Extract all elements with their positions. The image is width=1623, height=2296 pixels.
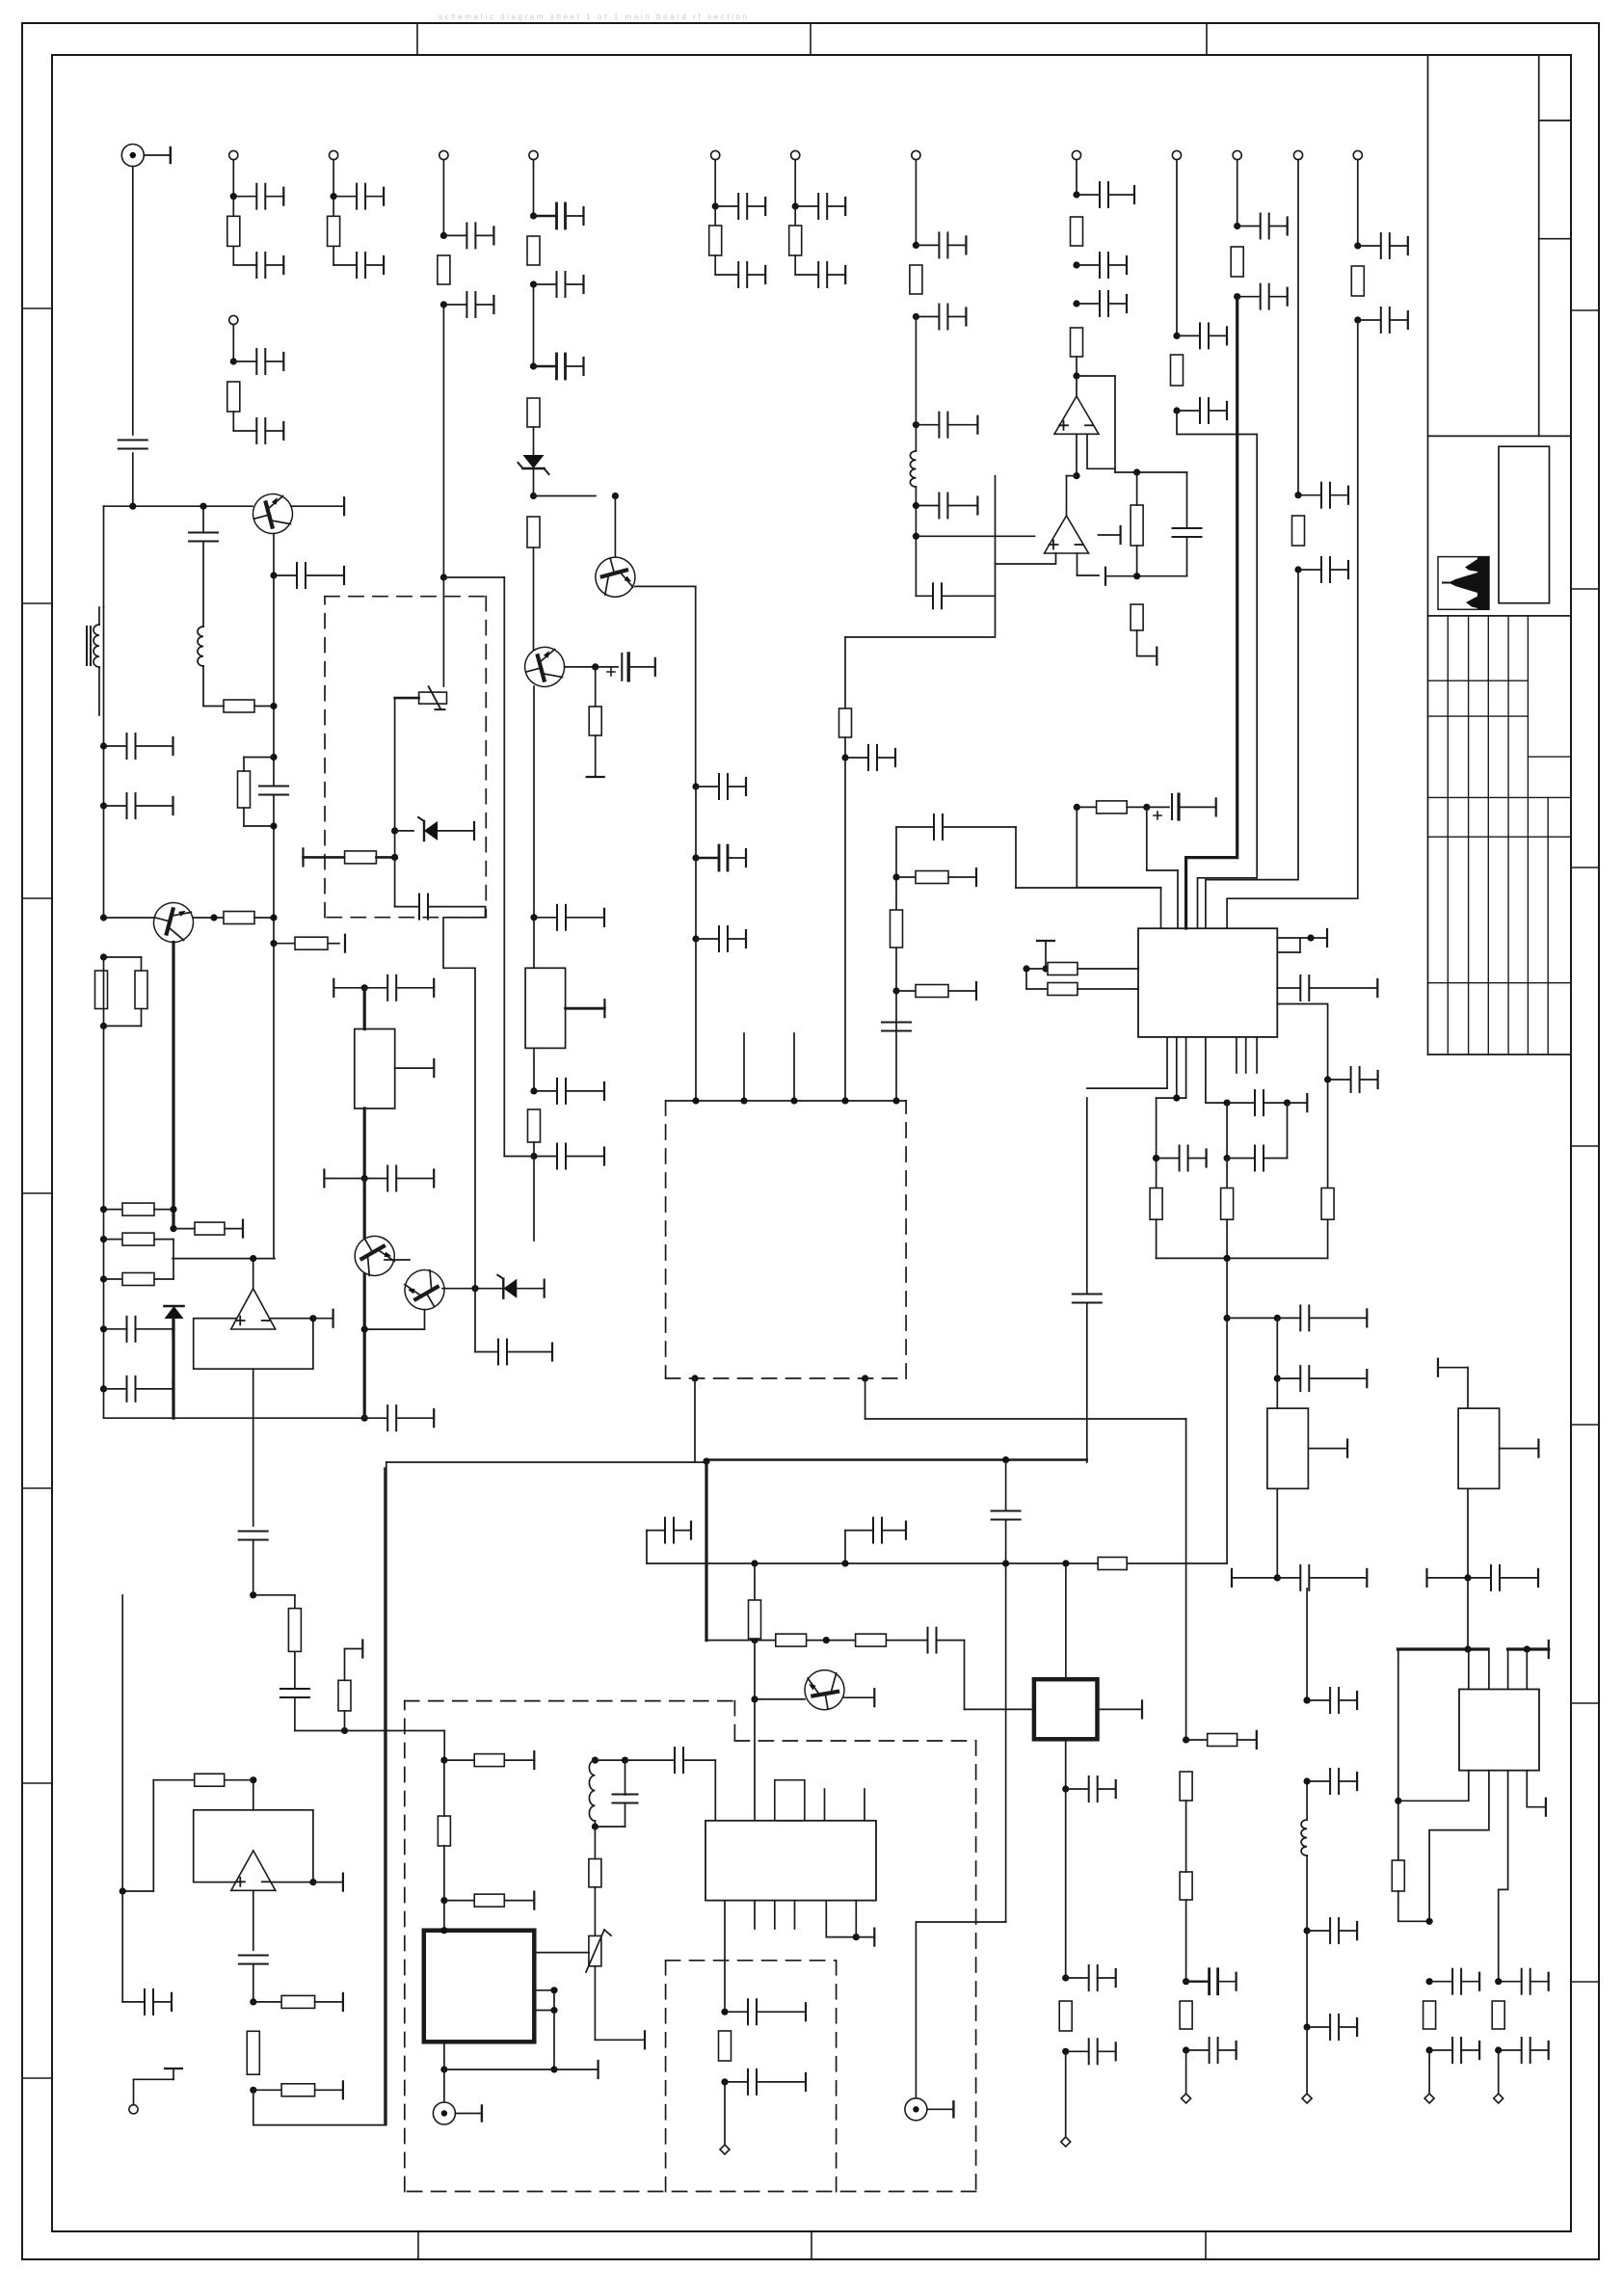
resistor R49 [247, 2031, 259, 2074]
Q7 stub [844, 1696, 874, 1698]
capacitor C54 row [1231, 1569, 1233, 1587]
zener D3 [391, 827, 398, 834]
Q6 output [442, 1288, 475, 1290]
IC5 top bold rail [1397, 1647, 1488, 1650]
resistor R46 [338, 1680, 351, 1711]
capacitor C37 series [259, 786, 288, 788]
capacitor C34 [100, 742, 107, 749]
node row y1025 [333, 979, 334, 997]
resistor R30v [891, 910, 903, 948]
resistor R31 [892, 987, 899, 994]
resistor R36 [1423, 2001, 1436, 2029]
IC U3 box [1138, 928, 1277, 1037]
resistor R42 [754, 1563, 756, 1600]
resistor R51 row [444, 1759, 474, 1761]
connector J2 coax [905, 2098, 927, 2121]
capacitor C78 [1066, 1788, 1089, 1790]
capacitor C69 series [992, 1510, 1021, 1512]
capacitor C76 row [323, 1170, 325, 1188]
capacitor C67 row [646, 1531, 648, 1563]
resistor bank top caps [1156, 1098, 1157, 1188]
capacitor C77 [474, 1289, 476, 1352]
capacitor C79 [1062, 1974, 1069, 1981]
long wire y1472 [1185, 1419, 1187, 1421]
IC4 bottom chain [1065, 1739, 1067, 1789]
IC3 top stubs [824, 1789, 826, 1821]
pin P21 [1065, 2051, 1067, 2137]
Q1 collector stub [291, 505, 344, 507]
wire to R14 [844, 637, 846, 708]
node F [1224, 1315, 1231, 1322]
capacitor C35 [100, 802, 107, 809]
capacitor C21 [1073, 191, 1079, 198]
resistor R11 [910, 265, 922, 294]
transistor Q2 [534, 495, 596, 497]
capacitor C36 [270, 572, 277, 578]
audio rail y1795 [295, 1730, 444, 1732]
wire to node A [132, 453, 134, 506]
IC3 crystal sub-box [775, 1780, 805, 1821]
bold bus to U3 [1186, 297, 1237, 928]
title block inner vertical [1538, 55, 1540, 436]
node A rail [104, 505, 253, 507]
resistor R35 [1392, 1860, 1404, 1891]
capacitor C3 [232, 246, 234, 265]
bottom rail y1701 [706, 1640, 927, 1642]
capacitor C10 [792, 202, 799, 209]
revision table rows [1428, 680, 1529, 681]
capacitor C62 [1304, 1696, 1311, 1703]
pin P8 [529, 150, 538, 159]
U2a inv input [1077, 553, 1078, 575]
node E row [173, 1258, 275, 1260]
capacitor C85 series [625, 1759, 676, 1761]
main vertical bus x284 [273, 575, 275, 786]
ground rail bottom left [104, 1417, 365, 1419]
resistor R25 row [100, 1236, 107, 1242]
U4a input [253, 1780, 254, 1810]
filter FL1 box [525, 968, 566, 1048]
capacitor C25 [1173, 333, 1180, 339]
wire to coax J2 [916, 1921, 1005, 1923]
Q5-Q6 link [385, 1259, 410, 1261]
TC2 bottom [1467, 1488, 1469, 1578]
resistor R10 [527, 517, 540, 547]
capacitor C18 [913, 313, 919, 320]
trimmer RV2 vertical [594, 1887, 596, 1936]
pin P7 [439, 150, 448, 159]
IC3 pin to stub [825, 1901, 827, 1937]
transistor Q5 [348, 1229, 402, 1283]
capacitor C41 [394, 831, 396, 907]
capacitor C19 [915, 317, 917, 425]
title block drawing number box [1499, 446, 1550, 603]
U2a output stub [1099, 534, 1121, 536]
capacitor C71 [721, 2078, 728, 2085]
resistor R48 row [253, 2001, 281, 2003]
wire 1230 column down [1185, 1421, 1187, 1740]
capacitor C39 [100, 1385, 107, 1392]
R46 top stub [344, 1649, 346, 1681]
capacitor C66 series [1073, 1294, 1102, 1295]
wire U2a plus input [996, 553, 1056, 564]
node B [533, 468, 535, 496]
resistor R32 [1150, 1188, 1162, 1220]
left edge zone ticks [22, 307, 52, 309]
resistor R26 row [100, 1275, 107, 1282]
pin P5 [711, 150, 720, 159]
wire node A to L3 [202, 506, 204, 532]
capacitor C5 [333, 246, 334, 265]
capacitor C82 [530, 914, 537, 921]
pin P6 [791, 150, 800, 159]
x1054 riser [1015, 827, 1017, 888]
Q2 output wire [635, 585, 696, 587]
resistor R15 [1171, 355, 1184, 386]
long bus y1517 [386, 1461, 706, 1463]
capacitor C47 series [882, 1022, 911, 1024]
capacitor C17 [913, 242, 919, 249]
pin P13 [1293, 150, 1302, 159]
resistor R4 [227, 382, 240, 412]
resistor R53 row [444, 1900, 474, 1902]
resistor R6 [794, 206, 796, 226]
wire R14 down [844, 758, 846, 1101]
wire feed x461 [443, 1731, 445, 1761]
resistor R2 [232, 197, 234, 217]
capacitor C63 [1304, 1777, 1311, 1784]
staircase to U3 pin1 [1016, 887, 1161, 889]
Q4 right wire [194, 917, 225, 919]
capacitor C14 bold [530, 212, 537, 219]
wire x783 down [754, 1641, 756, 1821]
module B1 box [363, 988, 366, 1029]
wire TC2 to IC5 [1467, 1578, 1469, 1649]
capacitor C6 [230, 358, 237, 364]
title block right column cells [1539, 120, 1571, 121]
pin P10 [1072, 150, 1080, 159]
M1 inner wire [394, 698, 396, 831]
bus y1622 [647, 1562, 1227, 1564]
resistor R7 [438, 255, 450, 284]
resistor R8 [527, 236, 540, 265]
right edge zone ticks [1571, 309, 1599, 311]
node H [533, 1142, 535, 1157]
capacitor C32 [1354, 316, 1361, 323]
wire cap to IC3 [714, 1760, 716, 1821]
wire IC6 to RV2 [534, 1952, 589, 1954]
wire to Q3 [533, 547, 535, 652]
capacitor C33 series [189, 532, 218, 534]
resistor R33 [1221, 1188, 1234, 1220]
op-amp U2b feedback network [1115, 471, 1187, 473]
capacitor C75 row [122, 2001, 145, 2003]
op-amp U2a [1066, 476, 1068, 516]
capacitor C68 row [844, 1531, 846, 1563]
op-amp U3a block [194, 1319, 313, 1370]
capacitor C53 [1274, 1375, 1281, 1382]
capacitor C45 [692, 935, 699, 942]
M2 pin stubs [743, 1033, 745, 1101]
bold riser x733 [705, 1462, 707, 1641]
resistor R28 [595, 667, 597, 707]
pin P9 [912, 150, 920, 159]
capacitor C55 row [1425, 1569, 1427, 1587]
resistor R29 [892, 873, 899, 880]
resistor R50 row [250, 2087, 256, 2094]
capacitor C7 [232, 412, 234, 431]
capacitor C30 [1294, 566, 1301, 573]
B1 stub [395, 1067, 435, 1069]
pin P11 [1172, 150, 1181, 159]
capacitor C20 [915, 487, 917, 506]
transistor Q6 [397, 1263, 451, 1317]
pin P19 [724, 2082, 726, 2145]
svg-text:schematic diagram sheet 1 of: schematic diagram sheet 1 of 1 main boar… [439, 13, 747, 21]
U3 left input resistors [1037, 940, 1054, 942]
capacitor C80 [1062, 2048, 1069, 2055]
transistor Q4 [149, 898, 198, 947]
electrolytic C48 [1147, 806, 1169, 808]
capacitor C81 [1186, 472, 1188, 528]
Q3 emitter [533, 686, 535, 918]
wire P7 down [442, 305, 444, 577]
TC1 right stub [1308, 1448, 1347, 1450]
IC IC4 heavy box [1034, 1679, 1098, 1739]
capacitor C29 [1294, 492, 1301, 498]
U1 feedback loop [1077, 376, 1115, 472]
resistor row y837 [1074, 804, 1080, 811]
capacitor C15 [530, 280, 537, 287]
resistor R44 [594, 1827, 596, 1859]
capacitor C27 [1234, 223, 1240, 229]
resistor R38 row [1183, 1736, 1189, 1743]
TC2 top stub [1437, 1359, 1439, 1376]
resistor R55 [1131, 505, 1143, 546]
wire R28 down [595, 735, 597, 777]
resistor R34 [1321, 1188, 1334, 1220]
node G [443, 1846, 445, 1901]
trimmer RV1 [419, 692, 447, 704]
node D [1076, 357, 1078, 376]
IC IC3 box [705, 1821, 876, 1901]
left rail join [103, 607, 105, 918]
capacitor C72 series [239, 1531, 268, 1533]
capacitor C9 [714, 255, 716, 275]
capacitor C24 [844, 737, 846, 758]
U3 dangling stubs [1236, 1037, 1237, 1073]
resistor R3 [333, 197, 334, 217]
wire bank down [1226, 1258, 1228, 1563]
capacitor C8 [712, 202, 719, 209]
resistor R57 [528, 1109, 541, 1142]
resistor R45 [294, 1595, 296, 1609]
resistor R5 [714, 206, 716, 226]
capacitor C84 [534, 1156, 557, 1158]
capacitor C61 [1183, 2046, 1189, 2053]
M2 bottom pins [691, 1375, 698, 1381]
inductor L3 [202, 542, 204, 627]
capacitor C40 [364, 1417, 387, 1419]
left col down [121, 1595, 123, 2002]
pin P15 [1428, 2050, 1430, 2094]
Q4 emitter bold [172, 943, 174, 1229]
resistor R18 [1351, 266, 1364, 296]
TC1 bottom [1276, 1488, 1278, 1578]
capacitor C64 [1306, 1855, 1308, 1931]
capacitor C59 [1495, 2046, 1502, 2053]
IC5 bottom pin jogs [1398, 1771, 1469, 1802]
wire M2 pin down [694, 1378, 696, 1462]
resistor R21 [224, 912, 254, 924]
capacitor C31 [1354, 242, 1361, 249]
resistor R12 [1071, 217, 1083, 246]
bold bus x378 [363, 1108, 366, 1179]
resistor R47 [225, 1779, 253, 1781]
resistor R52 [438, 1816, 450, 1846]
resistor R9 [527, 398, 540, 427]
IC5 top pins [1468, 1649, 1470, 1690]
U2a output net down x1128 [1086, 1098, 1088, 1294]
transistor Q1 [249, 490, 297, 538]
title block divider [1428, 435, 1572, 437]
resistor R13 [1071, 328, 1083, 357]
bank bottom rail [1156, 1219, 1157, 1258]
resistor R39 [1180, 1772, 1192, 1801]
resistor R20 loop [270, 754, 277, 761]
big box left edge [386, 1462, 387, 2125]
U3 bottom pins [1166, 1037, 1168, 1088]
op-amp U4a block [194, 1810, 313, 1882]
Q6 lower [364, 1310, 424, 1330]
resistor R19 [224, 700, 254, 712]
IC3 output down [724, 1901, 726, 2013]
U3 right stub 1 [1277, 937, 1311, 939]
wire x1000 to IC4 [964, 1641, 966, 1710]
wire to TC1 [1276, 1318, 1278, 1378]
capacitor C60 [1185, 1900, 1187, 1982]
column C chain [1397, 1649, 1399, 1801]
wire P14 to U3 [1227, 320, 1358, 928]
revision table top [1428, 615, 1572, 617]
wire from P7 node [440, 574, 447, 580]
pin P12 [1233, 150, 1241, 159]
pin P3 [330, 150, 338, 159]
inductor L1 [915, 425, 917, 451]
electrolytic C42 [565, 666, 596, 668]
node C wire [915, 506, 917, 537]
dashed box M3 outline [405, 1700, 735, 1702]
IC IC6 heavy box [424, 1931, 535, 2042]
wire U3 bottom long [1327, 1080, 1329, 1188]
wire P11 to U3 pin [1177, 411, 1257, 928]
pin P20 hook [129, 2105, 138, 2114]
capacitor C20b [915, 536, 917, 596]
revision table columns [1447, 616, 1449, 1055]
U4a output stub [309, 1879, 316, 1885]
title block left border [1427, 55, 1429, 1055]
resistor R17 [1292, 516, 1305, 546]
capacitor C16 bold [533, 284, 535, 366]
revision table bottom [1428, 1054, 1572, 1055]
capacitor C52 [1277, 1317, 1300, 1319]
wire P13 to U3 [1206, 570, 1298, 928]
connector J3 coax [443, 2069, 445, 2102]
capacitor C73 series [294, 1651, 296, 1689]
TC2 right stub [1500, 1448, 1539, 1450]
capacitor C43 [692, 783, 699, 789]
connector J1 coax [121, 145, 144, 167]
bottom edge zone ticks [417, 2231, 419, 2259]
capacitor C70 [721, 2009, 728, 2016]
wire P7 ext right [503, 577, 505, 1157]
dashed box M2 [665, 1101, 667, 1378]
inductor L2 with core [93, 625, 99, 667]
U3 right path C50 [1277, 1004, 1327, 1081]
capacitor C58 [1495, 1978, 1502, 1985]
pin P16 [1498, 2050, 1500, 2094]
capacitor C46 bars [896, 826, 934, 828]
pin P18 [1306, 2027, 1308, 2094]
IC3 bottom stubs [754, 1901, 756, 1929]
resistor R54 [1059, 2001, 1072, 2031]
input hook [152, 1780, 154, 1891]
pin P14 [1353, 150, 1362, 159]
IC6 bottom rail [443, 2042, 445, 2069]
capacitor C2 [230, 193, 237, 200]
capacitor C65 [1306, 1931, 1308, 2027]
U3 right cap C49 [1277, 987, 1300, 989]
capacitor C28 [1234, 293, 1240, 300]
wire FL1 down [533, 1157, 535, 1241]
pin P4 [229, 315, 238, 324]
resistor R58 row [270, 940, 277, 947]
wire L3 to R19 [202, 666, 204, 707]
capacitor C4 [331, 193, 337, 200]
IC IC5 box [1459, 1690, 1539, 1771]
capacitor C11 [794, 255, 796, 275]
pin P2 [229, 150, 238, 159]
IC6 right stubs [534, 1989, 554, 1991]
zener D1 [533, 427, 535, 455]
wire x1106 down [1065, 1563, 1067, 1679]
resistor R56 [1131, 604, 1143, 630]
capacitor C83 [533, 1048, 535, 1091]
pin P17 [1185, 2050, 1187, 2094]
wire y837 risers [1076, 807, 1078, 887]
capacitor C12 [440, 232, 447, 239]
capacitor C1 series [119, 440, 147, 441]
capacitor C74 series [239, 1955, 268, 1957]
logo skyline [1477, 557, 1489, 609]
trim-cap TC2 box [1458, 1408, 1500, 1488]
x930 branch [895, 827, 897, 1101]
IC4 right stub [1098, 1708, 1143, 1710]
op-amp U1 [1076, 376, 1078, 396]
zener D4 [503, 1279, 517, 1298]
wire U4a chain [253, 1369, 254, 1526]
capacitor C22 [1073, 261, 1079, 268]
capacitor C26 [1173, 407, 1180, 414]
wire TC1 to col B [1306, 1589, 1308, 1700]
top edge zone ticks [416, 23, 418, 55]
wire down left [103, 506, 105, 607]
dashed box M4 outline [666, 1960, 837, 1962]
tank circuit [592, 1757, 599, 1764]
logo box [1438, 557, 1489, 610]
capacitor C57 [1426, 2046, 1433, 2053]
resistor R24 row [100, 1206, 107, 1213]
